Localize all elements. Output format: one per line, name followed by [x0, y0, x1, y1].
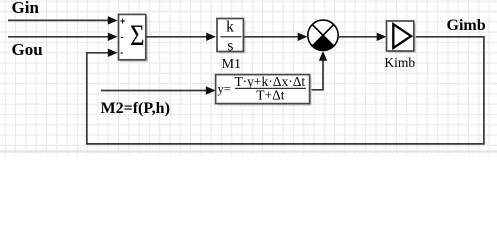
summer U-sum block shadow — [121, 16, 148, 61]
block M1 k/s shadow — [219, 21, 245, 54]
block M1 k/s — [217, 19, 243, 55]
svg-text:+: + — [120, 16, 125, 26]
svg-text:k: k — [226, 19, 234, 36]
wire Gin input — [8, 16, 118, 24]
wire multiplier to Kimb — [338, 33, 386, 41]
svg-text:Gimb: Gimb — [447, 17, 486, 34]
svg-text:s: s — [227, 38, 233, 55]
svg-text:-: - — [121, 32, 124, 42]
svg-text:-: - — [120, 47, 123, 57]
block M2 formula — [216, 74, 310, 104]
svg-text:M1: M1 — [222, 57, 241, 72]
multiplier mixer circle — [308, 20, 338, 50]
wire into M2 formula block — [101, 86, 216, 94]
wire M1 to multiplier — [243, 33, 307, 41]
block M2 formula shadow — [218, 77, 312, 106]
svg-text:y=: y= — [218, 82, 231, 96]
svg-text:T+Δt: T+Δt — [256, 87, 285, 102]
wire summer to M1 — [146, 33, 216, 41]
op summer block — [119, 14, 146, 59]
svg-text:Gou: Gou — [12, 40, 43, 59]
amplifier Kimb block — [387, 21, 414, 51]
bottom major grid band — [0, 151, 497, 153]
svg-text:Gin: Gin — [12, 0, 40, 17]
canvas background with grid — [0, 0, 497, 155]
svg-text:Kimb: Kimb — [384, 55, 415, 70]
wire M2 formula block to multiplier bottom input — [310, 51, 328, 90]
svg-text:M2=f(P,h): M2=f(P,h) — [101, 100, 170, 117]
svg-text:Σ: Σ — [130, 19, 144, 51]
wire Gou input — [8, 33, 118, 41]
amplifier Kimb block shadow — [389, 23, 416, 53]
wire feedback: from Gimb down, along bottom, up into summer third input — [87, 37, 484, 144]
